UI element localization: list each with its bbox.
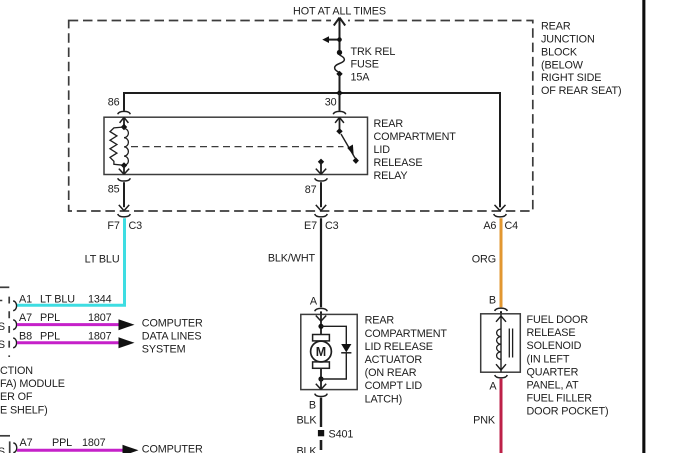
pin 30 (325, 97, 346, 115)
A6 C4 drop (483, 205, 518, 232)
svg-text:PPL: PPL (52, 437, 72, 449)
svg-text:TRK REL: TRK REL (351, 46, 396, 58)
svg-text:FA) MODULE: FA) MODULE (0, 378, 65, 390)
lower module edge (0, 436, 10, 453)
solenoid pin B (489, 295, 507, 314)
svg-text:RELEASE: RELEASE (374, 157, 423, 169)
module pin A7 (0, 312, 112, 333)
svg-text:COMPT LID: COMPT LID (365, 380, 423, 392)
wire battery feed vertical (334, 18, 345, 52)
svg-text:ORG: ORG (472, 254, 496, 266)
svg-text:S401: S401 (329, 428, 354, 440)
lower pin A7 (13, 437, 105, 452)
svg-text:BLK: BLK (296, 414, 317, 426)
svg-text:F7: F7 (107, 220, 119, 232)
svg-text:(IN LEFT: (IN LEFT (527, 353, 570, 365)
svg-text:A: A (489, 380, 497, 392)
svg-text:1807: 1807 (88, 330, 112, 342)
svg-text:LT BLU: LT BLU (85, 254, 120, 266)
svg-text:RELEASE: RELEASE (527, 327, 576, 339)
svg-text:30: 30 (325, 97, 337, 109)
svg-text:(BELOW: (BELOW (541, 59, 584, 71)
svg-text:S: S (0, 321, 5, 333)
svg-text:A7: A7 (20, 437, 33, 449)
svg-text:15A: 15A (351, 72, 371, 84)
svg-text:QUARTER: QUARTER (527, 366, 579, 378)
svg-text:1344: 1344 (88, 293, 112, 305)
wire bus (124, 93, 500, 207)
svg-text:1807: 1807 (82, 437, 106, 449)
svg-text:BLOCK: BLOCK (541, 46, 578, 58)
module pin B8 (0, 330, 112, 351)
svg-text:M: M (316, 345, 326, 359)
svg-text:FUEL FILLER: FUEL FILLER (527, 393, 593, 405)
pin 87 (304, 159, 339, 232)
wire PPL B8 (17, 341, 120, 344)
wire PPL lower (17, 449, 124, 452)
relay label (374, 118, 457, 182)
svg-text:A7: A7 (19, 312, 32, 324)
wire ORG (500, 218, 503, 307)
svg-text:C3: C3 (325, 220, 339, 232)
svg-text:B8: B8 (19, 330, 32, 342)
svg-text:86: 86 (108, 97, 120, 109)
coil resistor zigzag (110, 127, 124, 165)
svg-text:RIGHT SIDE: RIGHT SIDE (541, 72, 601, 84)
actuator pin B (309, 394, 327, 412)
svg-text:PPL: PPL (40, 330, 60, 342)
svg-text:A: A (310, 296, 318, 308)
svg-text:HOT AT ALL TIMES: HOT AT ALL TIMES (293, 5, 386, 17)
svg-text:PNK: PNK (473, 414, 496, 426)
svg-text:COMPUTER: COMPUTER (142, 317, 203, 329)
rear junction block dashed box (69, 21, 533, 212)
svg-text:COMPARTMENT: COMPARTMENT (374, 131, 457, 143)
junction on bus (336, 90, 343, 97)
RFA module label fragments (0, 365, 65, 416)
solenoid label (527, 314, 609, 418)
svg-text:A6: A6 (483, 220, 496, 232)
pin 85 (107, 178, 142, 232)
svg-text:SYSTEM: SYSTEM (142, 344, 186, 356)
svg-text:BLK/WHT: BLK/WHT (268, 253, 316, 265)
solenoid box (481, 314, 521, 372)
actuator box (301, 314, 357, 389)
coil bumps (124, 129, 128, 166)
relay box (104, 117, 368, 174)
wire PPL A7 (17, 323, 120, 326)
wire PNK (500, 379, 503, 453)
svg-text:PANEL, AT: PANEL, AT (527, 380, 579, 392)
svg-text:FUEL DOOR: FUEL DOOR (527, 314, 589, 326)
page edge bar (642, 0, 645, 453)
svg-text:COMPUTER: COMPUTER (142, 443, 203, 453)
svg-text:DOOR POCKET): DOOR POCKET) (527, 406, 609, 418)
svg-text:PPL: PPL (40, 312, 60, 324)
relay switch branch (335, 117, 359, 164)
svg-text:LATCH): LATCH) (365, 393, 402, 405)
svg-text:S: S (0, 446, 5, 453)
solenoid internals (496, 314, 513, 372)
wire pin30 drop (339, 93, 341, 111)
actuator label (365, 315, 448, 406)
svg-text:ACTUATOR: ACTUATOR (365, 354, 423, 366)
svg-text:87: 87 (305, 184, 317, 196)
svg-text:85: 85 (108, 184, 120, 196)
svg-text:1807: 1807 (88, 312, 112, 324)
svg-text:LID: LID (374, 144, 391, 156)
wire LT BLU cyan (17, 218, 125, 305)
svg-text:E SHELF): E SHELF) (0, 404, 48, 416)
svg-text:RELAY: RELAY (374, 170, 408, 182)
svg-text:A1: A1 (19, 293, 32, 305)
actuator pin A (310, 296, 327, 315)
svg-text:E7: E7 (304, 220, 317, 232)
diode D (321, 326, 346, 379)
gap in border for battery feed arrow (331, 15, 348, 25)
svg-text:LT BLU: LT BLU (40, 293, 75, 305)
svg-text:B: B (309, 400, 316, 412)
wire stub to left with arrow (322, 36, 342, 43)
motor M (313, 335, 330, 341)
svg-text:BLK: BLK (296, 446, 317, 453)
svg-text:FUSE: FUSE (351, 59, 379, 71)
relay actuation dashed link (131, 146, 344, 148)
rear junction block label (541, 21, 621, 98)
svg-text:B: B (489, 295, 496, 307)
svg-text:CTION: CTION (0, 365, 33, 377)
svg-text:JUNCTION: JUNCTION (541, 34, 595, 46)
fuse TRK REL FUSE 15A (335, 46, 396, 93)
actuator internals (311, 314, 352, 389)
svg-text:LID RELEASE: LID RELEASE (365, 341, 433, 353)
svg-text:C4: C4 (505, 220, 519, 232)
svg-text:SOLENOID: SOLENOID (527, 340, 582, 352)
svg-text:(ON REAR: (ON REAR (365, 367, 417, 379)
svg-text:REAR: REAR (374, 118, 404, 130)
pin 86 (108, 97, 131, 115)
svg-text:COMPARTMENT: COMPARTMENT (365, 328, 448, 340)
relay coil branch (110, 117, 129, 174)
svg-text:REAR: REAR (365, 315, 395, 327)
node COMPUTER DATA LINES SYSTEM (142, 317, 203, 355)
svg-text:OF REAR SEAT): OF REAR SEAT) (541, 85, 621, 97)
module pin A1 (13, 293, 112, 310)
svg-text:S: S (0, 339, 5, 351)
RFA module edge (0, 287, 9, 357)
wire BLK/WHT (320, 218, 322, 307)
svg-text:C3: C3 (129, 220, 143, 232)
svg-text:ER OF: ER OF (0, 391, 33, 403)
svg-text:DATA LINES: DATA LINES (142, 330, 202, 342)
solenoid pin A (489, 375, 507, 392)
wire BLK with splice S401 (296, 398, 353, 453)
svg-text:REAR: REAR (541, 21, 571, 33)
